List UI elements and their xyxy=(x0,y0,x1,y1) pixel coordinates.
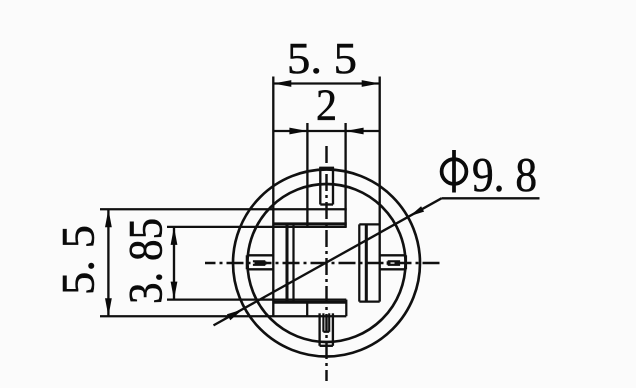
left bar left edge / outer boundary xyxy=(272,77,274,317)
arrow 5.5-top right xyxy=(362,80,380,87)
inner circle xyxy=(248,184,406,342)
dimension line 2 xyxy=(273,130,381,132)
svg-text:3. 85: 3. 85 xyxy=(120,218,173,304)
left tab bottom edge xyxy=(247,268,273,270)
arrow leader upper (tip on circle, points down-left) xyxy=(410,206,425,216)
svg-text:5. 5: 5. 5 xyxy=(53,225,105,295)
bottom tab right edge xyxy=(332,313,334,346)
left tab slot cap xyxy=(264,261,266,265)
arrow 2 left (outside, points right) xyxy=(289,128,307,135)
top tab left edge / 2 extension line xyxy=(306,123,308,227)
dimension line 5.5 top xyxy=(273,82,379,84)
right bar top cap xyxy=(359,223,379,225)
arrow 5.5-left top xyxy=(105,209,112,227)
top tab right edge / 2 extension line xyxy=(344,123,346,227)
left bar right edge xyxy=(292,224,294,302)
arrow 3.85 bottom xyxy=(171,282,178,300)
top slot left line xyxy=(319,167,321,204)
arrow 3.85 top xyxy=(171,227,178,245)
left bar internal line xyxy=(285,224,288,302)
right bar right edge / 5.5 extension line xyxy=(379,77,381,302)
arrow 2 right (outside, points left) xyxy=(346,128,364,135)
svg-text:5. 5: 5. 5 xyxy=(287,34,357,83)
centerline vertical xyxy=(325,146,327,381)
leader line diagonal for Ø9.8 xyxy=(214,198,442,325)
bottom slot cap xyxy=(323,331,329,333)
right tab bottom edge xyxy=(380,268,406,270)
right bar bottom cap xyxy=(359,300,379,302)
phi symbol of Ø9.8 xyxy=(442,150,467,193)
arrow leader lower (tip on circle, points up-right) xyxy=(227,309,243,320)
leader shoulder line under Ø9.8 text xyxy=(442,197,540,199)
dimension line 3.85 xyxy=(173,227,175,300)
arrow 5.5-left bottom xyxy=(105,298,112,316)
bottom slot left line xyxy=(322,313,324,332)
bottom bar inner edge / 3.85 extension line xyxy=(167,298,346,300)
left tab slot lower line xyxy=(253,264,265,266)
bottom slot right line xyxy=(328,313,330,332)
right bar internal line xyxy=(365,224,368,301)
right tab slot upper line xyxy=(388,260,400,262)
top bar outer edge / 5.5 extension line xyxy=(100,208,347,210)
left tab slot upper line xyxy=(253,260,265,262)
bottom bar internal line xyxy=(273,301,346,304)
bottom tab end cap xyxy=(320,345,333,347)
top slot right line xyxy=(332,167,334,204)
right tab slot lower line xyxy=(388,264,400,266)
right bar left edge xyxy=(358,224,360,301)
top bar inner edge / 3.85 extension line xyxy=(167,226,347,228)
outer circle Ø9.8 xyxy=(233,170,420,357)
bottom bar step cap xyxy=(306,302,308,317)
top slot bottom cap xyxy=(320,203,333,205)
top slot top cap xyxy=(319,167,334,169)
dimension line 5.5 left xyxy=(107,209,109,316)
arrow 5.5-top left xyxy=(273,80,291,87)
left tab top edge xyxy=(247,254,273,256)
svg-text:9. 8: 9. 8 xyxy=(472,149,537,202)
bottom bar right end cap xyxy=(345,300,347,317)
left tab end cap xyxy=(246,255,248,269)
top bar internal line xyxy=(273,222,346,225)
svg-text:2: 2 xyxy=(316,81,337,130)
centerline horizontal xyxy=(205,262,444,264)
right tab top edge xyxy=(380,254,406,256)
bottom tab left edge xyxy=(318,313,320,346)
bottom bar outer edge / 5.5 extension line xyxy=(100,315,346,317)
right tab end cap xyxy=(405,255,407,269)
right tab slot cap xyxy=(387,261,389,265)
